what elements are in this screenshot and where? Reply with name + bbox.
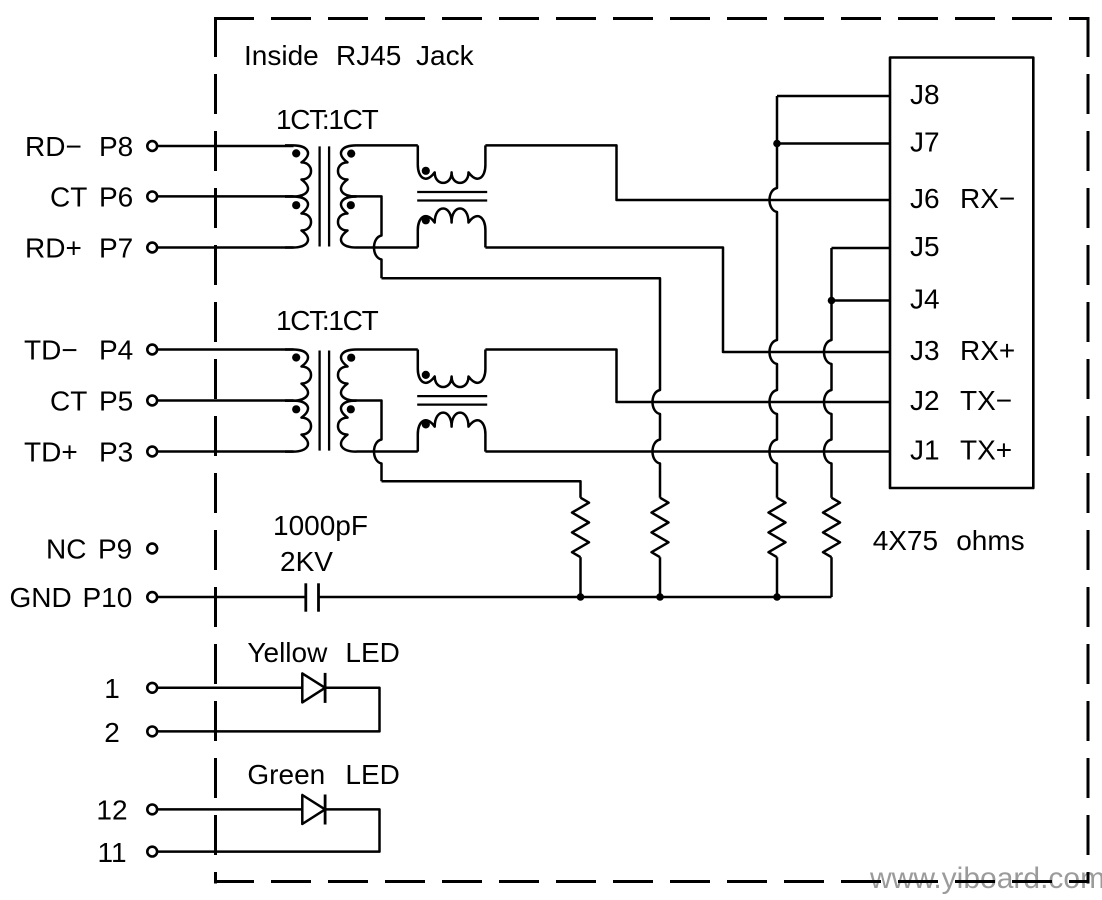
- common-mode choke CH1 core: [417, 192, 487, 201]
- svg-text:P4: P4: [99, 335, 133, 366]
- wire P5 to transformer: [157, 399, 293, 402]
- pin 1 terminal circle and label: [104, 673, 157, 704]
- svg-text:NC: NC: [46, 534, 86, 565]
- resistor R4 (75 ohm): [823, 498, 840, 558]
- wire P10 to capacitor C1: [157, 596, 305, 599]
- svg-text:LED: LED: [345, 759, 399, 790]
- wire CH1 top-right to J6 RX- (node RX-): [485, 145, 890, 200]
- svg-text:TX−: TX−: [960, 385, 1012, 416]
- svg-text:J4: J4: [910, 284, 940, 315]
- svg-text:J8: J8: [910, 79, 940, 110]
- common-mode choke CH1 top winding: [418, 145, 486, 183]
- resistor R3 (75 ohm): [769, 498, 786, 558]
- common-mode choke CH1 phase dots: [422, 167, 430, 225]
- transformer T2 core: [320, 351, 330, 451]
- svg-text:TD+: TD+: [24, 437, 78, 468]
- svg-text:2: 2: [104, 717, 120, 748]
- pin P6 (CT) terminal circle and labels: [50, 181, 157, 212]
- svg-text:J1: J1: [910, 435, 940, 466]
- transformer T1 primary winding (left): [285, 145, 311, 247]
- wire P3 to transformer: [157, 450, 293, 453]
- wire J4 line: [832, 299, 891, 302]
- pin P7 (RD+) terminal circle and labels: [25, 233, 157, 264]
- wire T1 secondary center tap down (hop over RX+): [348, 196, 382, 278]
- svg-text:Inside: Inside: [244, 40, 319, 71]
- pin label J4: [910, 284, 940, 315]
- label Green LED: [247, 759, 399, 790]
- transformer T1 secondary winding (right): [338, 145, 357, 247]
- pin 12 terminal circle and label: [96, 795, 157, 826]
- transformer T1 phase dots: [292, 149, 355, 209]
- diode D1 (Yellow LED) triangle and cathode bar: [302, 673, 325, 703]
- wire CH2 top-right to J2 TX- (node TX-): [485, 350, 890, 403]
- svg-text:CT: CT: [50, 386, 87, 417]
- common-mode choke CH1 bottom winding: [418, 208, 486, 247]
- svg-text:P3: P3: [99, 437, 133, 468]
- svg-text:ohms: ohms: [956, 525, 1024, 556]
- pin label J7: [910, 127, 940, 158]
- wire J8 line: [777, 95, 890, 98]
- svg-text:RX+: RX+: [960, 335, 1015, 366]
- wire T1 secondary top to CH1 top-left: [357, 144, 418, 147]
- svg-text:2KV: 2KV: [280, 546, 333, 577]
- wire pin 1 to diode D1 anode: [157, 687, 302, 690]
- junction node R3/GND: [773, 593, 781, 601]
- junction node J7 bus: [773, 140, 781, 148]
- dashed enclosure border of RJ45 jack: [214, 17, 1088, 884]
- svg-text:www.yiboard.com: www.yiboard.com: [869, 862, 1102, 895]
- wire T1 secondary bottom to CH1 bottom-left: [357, 246, 418, 249]
- pin label J6 RX&#8722;: [910, 183, 1015, 214]
- svg-text:TX+: TX+: [960, 435, 1012, 466]
- svg-text:CT: CT: [50, 181, 87, 212]
- wire J5 line: [832, 247, 891, 250]
- common-mode choke CH2 bottom winding: [418, 413, 486, 452]
- resistor R1 (75 ohm): [572, 498, 589, 558]
- transformer T1 core: [320, 146, 330, 246]
- wire TX center-tap to resistor R1: [382, 481, 581, 497]
- svg-text:Jack: Jack: [416, 40, 475, 71]
- wire R4 bottom to GND bus: [830, 557, 833, 597]
- wire R2 bottom to GND bus: [659, 557, 662, 597]
- wire R1 bottom to GND bus: [579, 557, 582, 597]
- svg-text:Yellow: Yellow: [247, 637, 328, 668]
- transformer T2 phase dots: [292, 353, 355, 413]
- transformer T2 secondary winding (right): [338, 350, 357, 452]
- svg-text:P6: P6: [99, 181, 133, 212]
- transformer T2 primary winding (left): [285, 350, 311, 452]
- wire P6 to transformer: [157, 195, 293, 198]
- wire D1 cathode loop to pin 2: [157, 688, 379, 732]
- pin label J1 TX+: [910, 435, 1012, 466]
- svg-text:P8: P8: [99, 131, 133, 162]
- junction node R1/GND: [577, 593, 585, 601]
- wire GND bus from capacitor to resistors: [319, 596, 832, 599]
- pin label J3 RX+: [910, 335, 1015, 366]
- pin P10 (GND) terminal circle and labels: [10, 582, 158, 613]
- pin P5 (CT) terminal circle and labels: [50, 386, 157, 417]
- wire D2 cathode loop to pin 11: [157, 809, 379, 851]
- RJ45 jack connector body (J1-J8): [890, 58, 1033, 489]
- pin label J5: [910, 231, 940, 262]
- svg-text:RX−: RX−: [960, 183, 1015, 214]
- pin P8 (RD&#8722;) terminal circle and labels: [25, 131, 157, 162]
- wire P4 to transformer: [157, 348, 293, 351]
- svg-text:12: 12: [96, 795, 127, 826]
- junction node J4 bus: [828, 297, 836, 305]
- svg-text:J7: J7: [910, 127, 940, 158]
- label Yellow LED: [247, 637, 399, 668]
- svg-text:P5: P5: [99, 386, 133, 417]
- svg-text:4X75: 4X75: [873, 525, 938, 556]
- wire J8/J7 bus down to resistor R3 (hops at J6,J3,J2,J1): [770, 96, 778, 498]
- svg-text:J6: J6: [910, 183, 940, 214]
- wire J7 line: [777, 142, 890, 145]
- svg-text:RD+: RD+: [25, 233, 82, 264]
- svg-text:TD−: TD−: [24, 335, 78, 366]
- svg-text:P9: P9: [98, 534, 132, 565]
- svg-text:1: 1: [104, 673, 120, 704]
- svg-text:1000pF: 1000pF: [273, 510, 368, 541]
- pin 2 terminal circle and label: [104, 717, 157, 748]
- wire RX center-tap bus to resistor R2 (with hops at J2,J1): [382, 278, 661, 497]
- pin P9 (NC) terminal circle and labels: [46, 534, 157, 565]
- resistor R2 (75 ohm): [652, 498, 669, 558]
- svg-text:GND: GND: [10, 582, 72, 613]
- wire T2 secondary bottom to CH2 bottom-left: [357, 450, 418, 453]
- common-mode choke CH2 top winding: [418, 350, 486, 388]
- common-mode choke CH2 phase dots: [422, 371, 430, 429]
- junction node R2/GND: [656, 593, 664, 601]
- wire P8 to transformer: [157, 145, 293, 148]
- diode D2 (Green LED) triangle and cathode bar: [302, 795, 325, 825]
- svg-text:RD−: RD−: [25, 131, 82, 162]
- svg-text:J3: J3: [910, 335, 940, 366]
- svg-text:1CT:1CT: 1CT:1CT: [276, 104, 379, 135]
- label 4X75 ohms: [873, 525, 1025, 556]
- wire J5/J4 bus down to resistor R4 (hops at J3,J2,J1): [824, 248, 832, 498]
- svg-text:J5: J5: [910, 231, 940, 262]
- svg-text:RJ45: RJ45: [336, 40, 401, 71]
- svg-text:P10: P10: [83, 582, 133, 613]
- svg-text:11: 11: [97, 837, 126, 868]
- pin label J8: [910, 79, 940, 110]
- svg-text:J2: J2: [910, 385, 940, 416]
- pin P3 (TD+) terminal circle and labels: [24, 437, 157, 468]
- wire T2 secondary center tap down (hop over TX+): [348, 401, 382, 482]
- wire T2 secondary top to CH2 top-left: [357, 348, 418, 351]
- wire CH2 bottom-right to J1 TX+ (node TX+): [485, 450, 890, 453]
- svg-text:1CT:1CT: 1CT:1CT: [276, 305, 379, 336]
- pin 11 terminal circle and label: [97, 837, 157, 868]
- wire P7 to transformer: [157, 246, 293, 249]
- svg-text:LED: LED: [345, 637, 399, 668]
- pin label J2 TX&#8722;: [910, 385, 1012, 416]
- svg-text:Green: Green: [247, 759, 325, 790]
- wire CH1 bottom-right to J3 RX+ (node RX+): [485, 248, 890, 353]
- wire pin 12 to diode D2 anode: [157, 808, 302, 811]
- label: Inside RJ45 Jack: [244, 40, 475, 71]
- pin P4 (TD&#8722;) terminal circle and labels: [24, 335, 157, 366]
- common-mode choke CH2 core: [417, 396, 487, 405]
- svg-text:P7: P7: [99, 233, 133, 264]
- capacitor C1 plates: [306, 583, 319, 611]
- wire R3 bottom to GND bus: [776, 557, 779, 597]
